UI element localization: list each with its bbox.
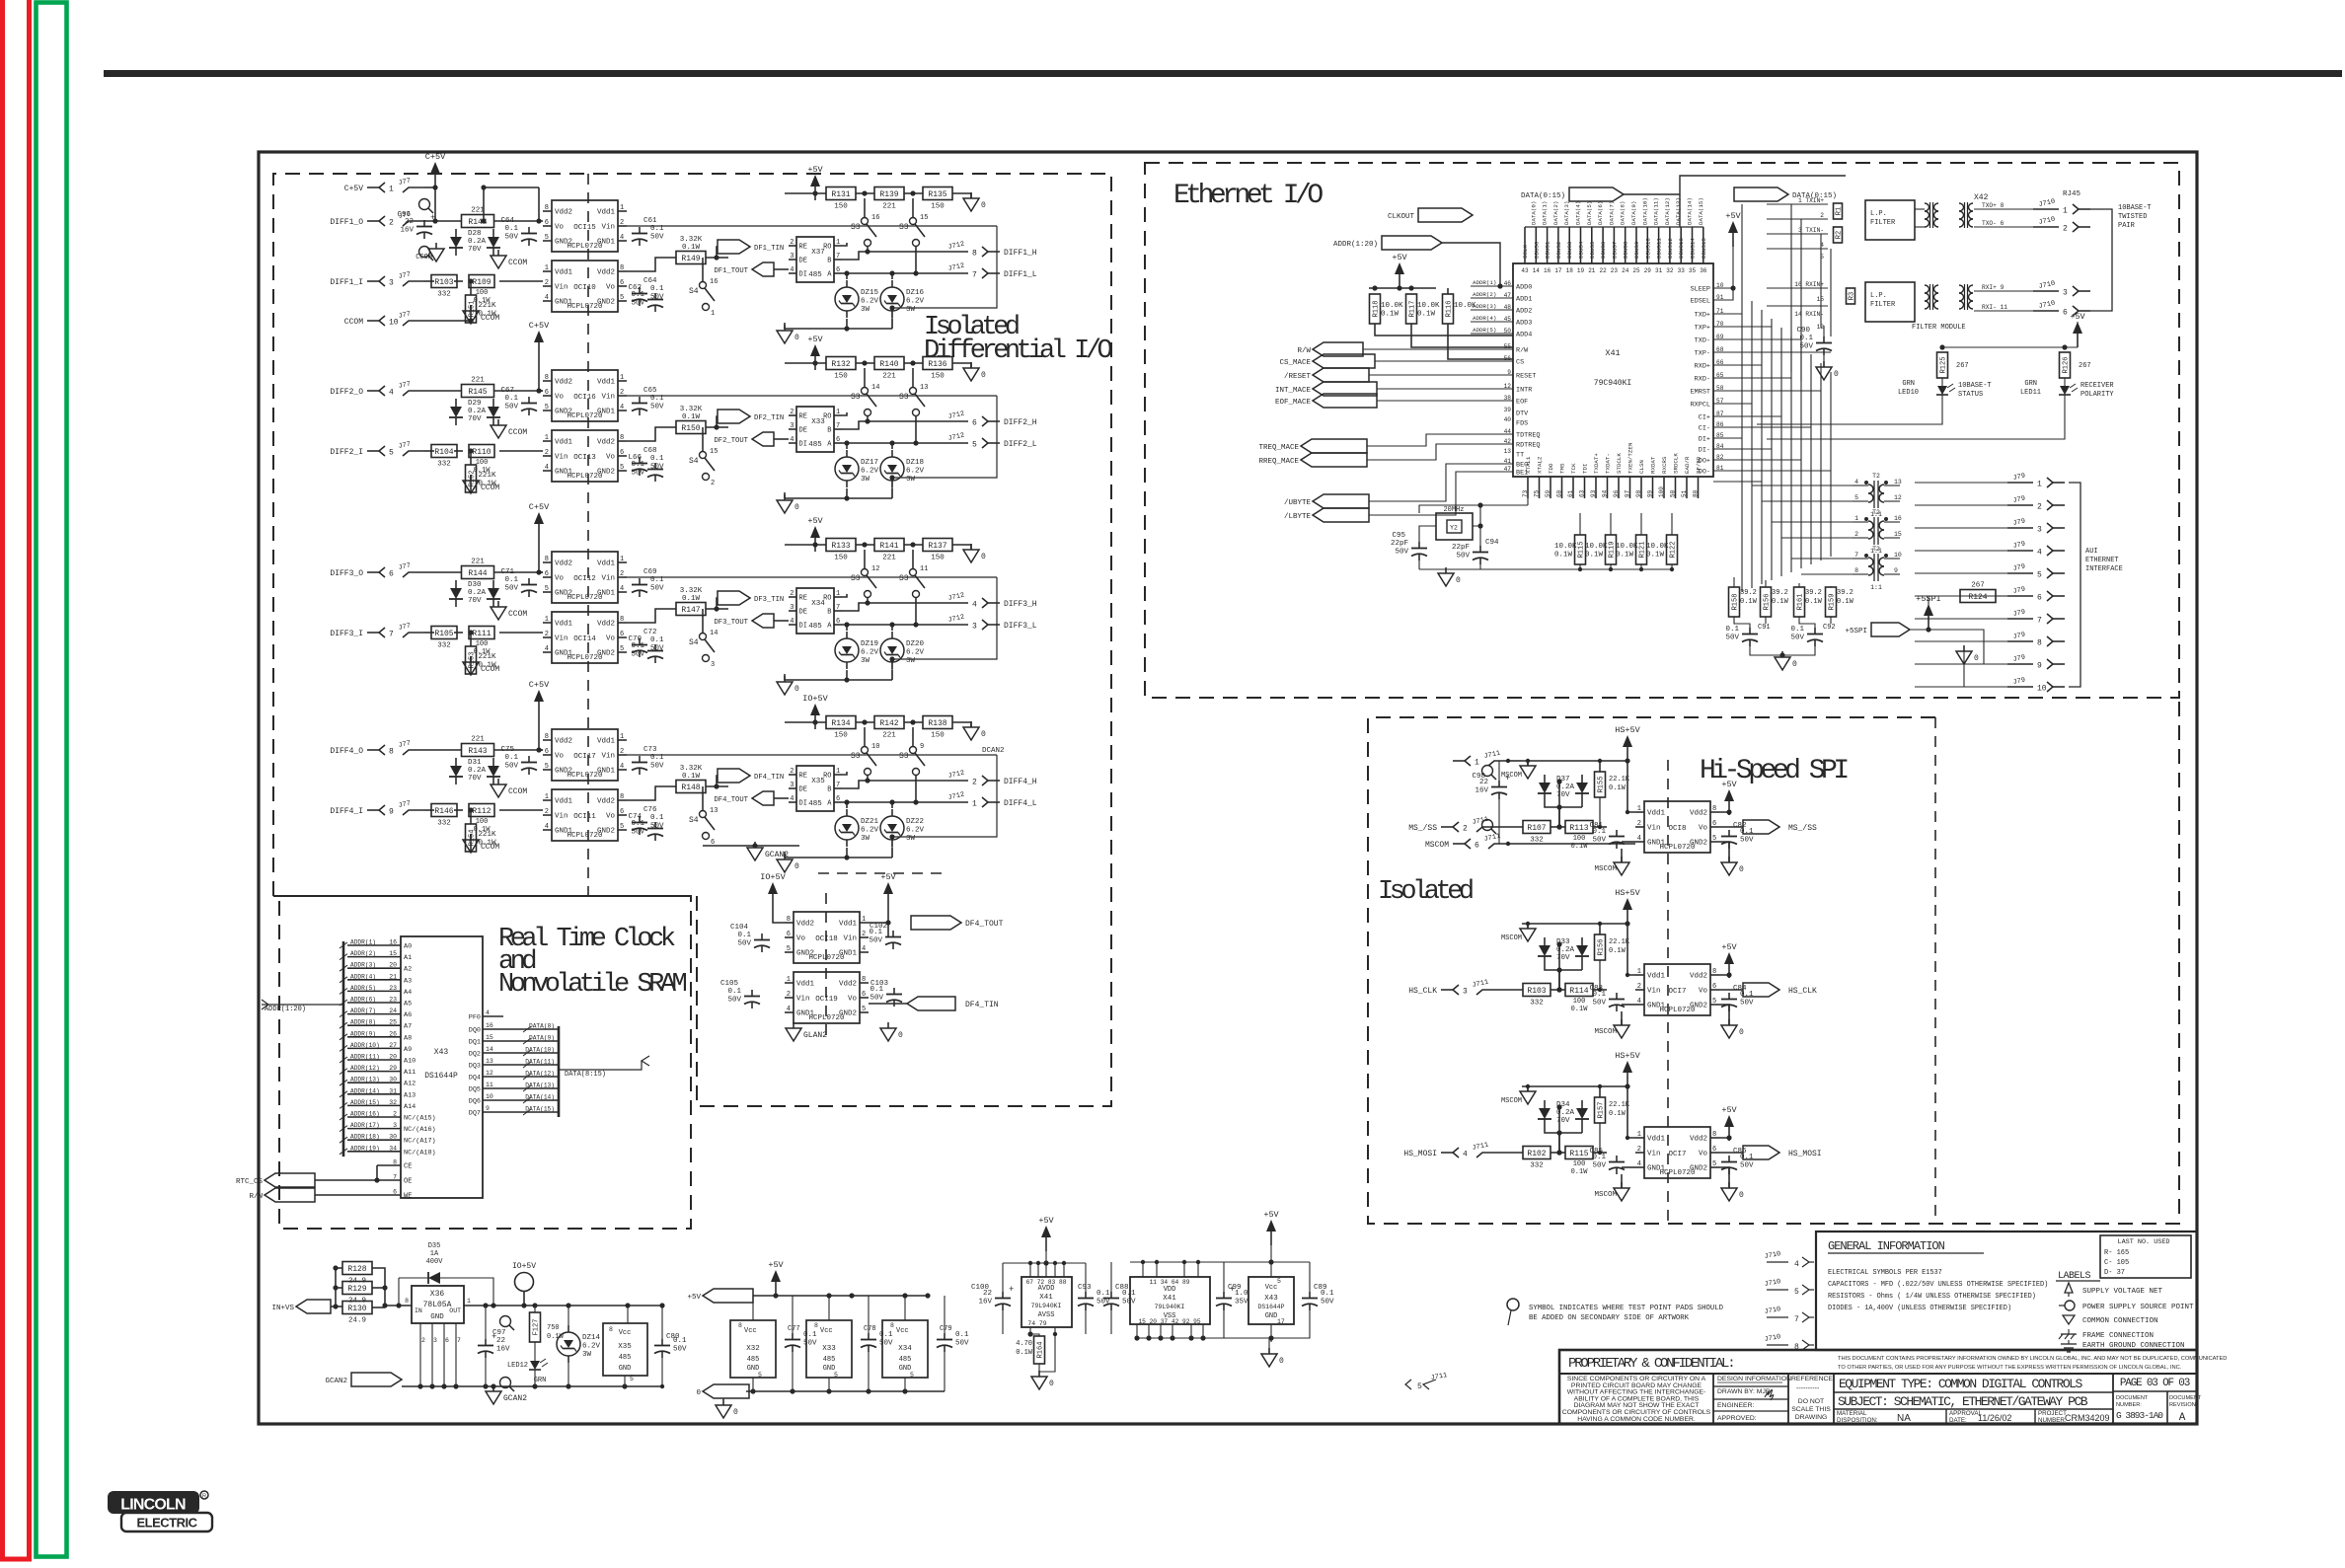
svg-text:10: 10 bbox=[486, 1093, 493, 1100]
switch S3 bbox=[851, 214, 879, 247]
svg-text:1: 1 bbox=[1637, 805, 1641, 813]
svg-text:IN: IN bbox=[415, 1307, 422, 1314]
wire bbox=[1045, 1251, 1047, 1277]
resistor R126 bbox=[2060, 352, 2071, 378]
svg-text:DI: DI bbox=[799, 800, 807, 808]
optocoupler OCI14 HCPL0720 bbox=[543, 612, 627, 663]
svg-text:X43: X43 bbox=[434, 1048, 449, 1057]
wire bbox=[661, 1306, 663, 1339]
svg-text:50V: 50V bbox=[504, 404, 518, 411]
X41 left pins bbox=[1471, 279, 1540, 478]
wire bbox=[842, 781, 943, 788]
legend: earth ground connection bbox=[2061, 1340, 2185, 1352]
SRAM power X43 bbox=[1248, 1277, 1294, 1325]
svg-text:35V: 35V bbox=[1235, 1299, 1248, 1307]
svg-text:16: 16 bbox=[1544, 267, 1551, 274]
wire bbox=[470, 810, 472, 824]
svg-text:Vdd2: Vdd2 bbox=[555, 209, 572, 217]
svg-text:2: 2 bbox=[972, 779, 977, 787]
svg-text:MS_/SS: MS_/SS bbox=[1788, 824, 1817, 833]
svg-text:13: 13 bbox=[1894, 479, 1902, 485]
svg-text:485: 485 bbox=[747, 1356, 760, 1364]
svg-text:6: 6 bbox=[1712, 820, 1716, 828]
svg-text:750: 750 bbox=[547, 1324, 560, 1332]
svg-text:C104: C104 bbox=[730, 924, 749, 932]
legend: common connection bbox=[2063, 1315, 2158, 1325]
svg-text:60: 60 bbox=[1556, 489, 1563, 497]
svg-text:C84: C84 bbox=[1733, 985, 1747, 993]
svg-text:A3: A3 bbox=[404, 977, 412, 985]
svg-text:3: 3 bbox=[393, 1122, 397, 1129]
wire crystal bbox=[1419, 505, 1528, 513]
svg-text:C93: C93 bbox=[1078, 1284, 1092, 1292]
wire bbox=[1002, 1263, 1004, 1292]
net flag bbox=[1871, 623, 1910, 636]
switch S3 bbox=[899, 565, 928, 598]
design information cell bbox=[1713, 1376, 1791, 1422]
svg-text:150: 150 bbox=[834, 373, 848, 381]
svg-text:332: 332 bbox=[437, 820, 451, 828]
wire bbox=[627, 609, 676, 623]
svg-text:R140: R140 bbox=[879, 360, 898, 369]
section box: Isolated Differential I/O bbox=[273, 174, 1111, 1106]
svg-text:5: 5 bbox=[1712, 1160, 1716, 1168]
wire bbox=[717, 247, 718, 258]
power source IO+5V bbox=[512, 1262, 536, 1306]
wire bbox=[944, 1296, 946, 1333]
switch S3 bbox=[851, 384, 879, 416]
wire bbox=[784, 852, 786, 858]
svg-text:DZ15: DZ15 bbox=[861, 289, 879, 297]
svg-text:9: 9 bbox=[486, 1105, 490, 1112]
svg-text:DIFF1_L: DIFF1_L bbox=[1004, 270, 1037, 279]
svg-text:4: 4 bbox=[620, 763, 624, 771]
svg-text:5: 5 bbox=[1712, 998, 1716, 1006]
resistor R147 bbox=[676, 603, 706, 616]
AUI bracket bbox=[2069, 483, 2080, 687]
svg-text:Vdd2: Vdd2 bbox=[1690, 810, 1707, 818]
svg-text:8: 8 bbox=[620, 434, 624, 442]
wire bbox=[785, 721, 826, 723]
svg-text:C82: C82 bbox=[1733, 822, 1747, 830]
svg-text:Vin: Vin bbox=[555, 813, 568, 821]
svg-text:NC/(A17): NC/(A17) bbox=[404, 1138, 436, 1146]
svg-text:R144: R144 bbox=[468, 569, 487, 578]
svg-text:10: 10 bbox=[2037, 685, 2047, 694]
svg-text:ADDR(4): ADDR(4) bbox=[1473, 315, 1496, 322]
svg-text:R105: R105 bbox=[434, 630, 453, 638]
svg-text:TDTREQ: TDTREQ bbox=[1516, 432, 1540, 440]
wire bbox=[1719, 975, 1729, 978]
svg-text:TMS: TMS bbox=[1559, 463, 1566, 474]
resistor R138 bbox=[923, 716, 952, 740]
svg-text:PAIR: PAIR bbox=[2118, 222, 2136, 230]
wire bbox=[1621, 1011, 1623, 1025]
wire bbox=[1527, 761, 1529, 766]
svg-text:5: 5 bbox=[545, 585, 549, 593]
power net HS+5V bbox=[1615, 725, 1640, 761]
svg-text:3: 3 bbox=[790, 422, 794, 430]
svg-text:A2: A2 bbox=[404, 966, 412, 974]
ground bbox=[491, 250, 527, 268]
wire bbox=[856, 192, 874, 194]
svg-text:DZ19: DZ19 bbox=[861, 640, 878, 648]
svg-text:C71: C71 bbox=[500, 568, 514, 576]
svg-text:C83: C83 bbox=[1589, 985, 1603, 993]
svg-text:1: 1 bbox=[836, 409, 840, 416]
svg-text:DZ22: DZ22 bbox=[906, 818, 924, 826]
wire bbox=[470, 305, 472, 323]
svg-text:0.1: 0.1 bbox=[650, 814, 664, 822]
svg-text:2: 2 bbox=[787, 991, 791, 999]
svg-text:6.2V: 6.2V bbox=[861, 298, 879, 306]
resistor R135 bbox=[923, 187, 952, 211]
connector J79 pin 3 bbox=[2007, 517, 2065, 534]
svg-text:2: 2 bbox=[545, 631, 549, 638]
svg-text:HCPL0720: HCPL0720 bbox=[1659, 1169, 1696, 1177]
Lincoln Electric logo bbox=[108, 1491, 212, 1531]
svg-text:11/26/02: 11/26/02 bbox=[1978, 1413, 2011, 1423]
wire T2 to J79 bbox=[1915, 483, 2007, 687]
capacitor bbox=[1103, 1290, 1136, 1310]
transformer (TX2) bbox=[1959, 202, 1973, 228]
svg-text:Vdd2: Vdd2 bbox=[597, 621, 615, 629]
svg-text:DATA(5): DATA(5) bbox=[1586, 201, 1593, 225]
resistor R142 bbox=[874, 716, 904, 740]
svg-text:C77: C77 bbox=[788, 1325, 800, 1333]
svg-text:13: 13 bbox=[710, 807, 718, 815]
svg-text:6: 6 bbox=[862, 991, 866, 999]
svg-text:+5V: +5V bbox=[1263, 1210, 1279, 1220]
svg-text:5: 5 bbox=[834, 1372, 838, 1379]
net flag DF4_TOUT bbox=[911, 916, 961, 930]
svg-text:C96: C96 bbox=[397, 211, 411, 219]
resistor R109 bbox=[469, 275, 494, 288]
svg-text:RE: RE bbox=[799, 595, 807, 603]
SPI isolation dashed lines bbox=[1667, 760, 1669, 1224]
svg-text:DATA(10): DATA(10) bbox=[1641, 197, 1648, 225]
capacitor C72 bbox=[632, 636, 664, 657]
svg-text:Vdd2: Vdd2 bbox=[597, 798, 615, 806]
svg-text:C75: C75 bbox=[500, 746, 514, 754]
wire bbox=[717, 598, 718, 609]
svg-text:D30: D30 bbox=[468, 581, 482, 589]
svg-text:50V: 50V bbox=[1740, 1162, 1754, 1170]
svg-text:5: 5 bbox=[620, 823, 624, 831]
svg-text:CCOM: CCOM bbox=[508, 610, 527, 619]
svg-text:DISPOSITION:: DISPOSITION: bbox=[1837, 1417, 1878, 1424]
net flag /UBYTE bbox=[1313, 494, 1369, 508]
legend: frame connection bbox=[2059, 1329, 2154, 1340]
wire bbox=[1527, 1086, 1529, 1091]
connector J77 pin 5 (DIFF2_I) bbox=[330, 440, 424, 457]
svg-text:SCLK: SCLK bbox=[1522, 245, 1529, 259]
svg-text:R1: R1 bbox=[1836, 207, 1844, 215]
svg-text:DF2_TIN: DF2_TIN bbox=[754, 414, 784, 422]
svg-text:2: 2 bbox=[1637, 983, 1641, 991]
svg-text:ADDR(9): ADDR(9) bbox=[350, 1030, 376, 1037]
svg-text:20: 20 bbox=[389, 962, 397, 969]
legend: power supply source point bbox=[2059, 1301, 2194, 1311]
svg-text:INTERFACE: INTERFACE bbox=[2085, 565, 2123, 573]
svg-text:3W: 3W bbox=[906, 306, 916, 314]
svg-text:Vin: Vin bbox=[555, 635, 568, 643]
svg-text:4: 4 bbox=[1463, 1151, 1468, 1159]
LED LED10 bbox=[1936, 378, 1955, 402]
resistor R118 bbox=[1370, 294, 1404, 324]
svg-text:DQ7: DQ7 bbox=[469, 1110, 481, 1118]
svg-text:B: B bbox=[827, 609, 831, 617]
LED LED12 bbox=[529, 1353, 548, 1377]
svg-text:150: 150 bbox=[834, 203, 848, 211]
svg-text:C86: C86 bbox=[1733, 1148, 1747, 1156]
connector J711 pin 4 (HS_MOSI) bbox=[1403, 1142, 1498, 1159]
svg-text:RE: RE bbox=[799, 413, 807, 421]
svg-text:R157: R157 bbox=[1598, 1102, 1606, 1119]
svg-text:3: 3 bbox=[790, 253, 794, 261]
svg-text:CS: CS bbox=[1516, 359, 1524, 367]
svg-text:3 TXIN-: 3 TXIN- bbox=[1798, 227, 1824, 234]
svg-text:39.2: 39.2 bbox=[1772, 589, 1788, 597]
net flag HS_MOSI bbox=[1743, 1146, 1779, 1159]
svg-text:0: 0 bbox=[981, 553, 986, 561]
resistor R136 bbox=[923, 357, 952, 381]
connector J79 pin 6 bbox=[2007, 585, 2065, 602]
connector J711 pin 5 bbox=[1405, 1372, 1448, 1391]
svg-text:221: 221 bbox=[882, 203, 896, 211]
wire supply rail bbox=[1522, 1085, 1627, 1087]
svg-text:DQ0: DQ0 bbox=[469, 1027, 481, 1035]
connector J710 pin 1 bbox=[2033, 198, 2090, 216]
svg-text:50V: 50V bbox=[650, 585, 664, 593]
resistor R144 bbox=[462, 207, 494, 228]
ground bbox=[463, 475, 499, 493]
svg-text:Vdd1: Vdd1 bbox=[555, 621, 573, 629]
svg-text:Vdd1: Vdd1 bbox=[597, 379, 616, 387]
svg-text:98: 98 bbox=[1635, 489, 1642, 497]
capacitor C102 bbox=[869, 929, 901, 949]
svg-text:R107: R107 bbox=[1527, 824, 1546, 833]
svg-text:C+5V: C+5V bbox=[529, 680, 550, 690]
svg-text:Vdd2: Vdd2 bbox=[1690, 973, 1707, 981]
svg-text:R122: R122 bbox=[1670, 542, 1678, 559]
wire bbox=[1419, 568, 1672, 570]
svg-text:0: 0 bbox=[794, 685, 799, 694]
svg-text:ADDR(8): ADDR(8) bbox=[350, 1019, 376, 1026]
svg-text:50V: 50V bbox=[1395, 549, 1408, 557]
switch S4 bbox=[689, 278, 718, 318]
svg-text:Vin: Vin bbox=[1647, 1151, 1661, 1158]
svg-text:4: 4 bbox=[620, 585, 624, 593]
optocoupler OCI7 HCPL0720 bbox=[1635, 1127, 1719, 1178]
svg-text:Vdd1: Vdd1 bbox=[555, 269, 573, 277]
svg-text:DBUS6: DBUS6 bbox=[1600, 241, 1607, 259]
svg-text:S3: S3 bbox=[899, 223, 909, 232]
svg-text:CCOM: CCOM bbox=[344, 318, 363, 327]
svg-text:6.2V: 6.2V bbox=[861, 649, 879, 657]
svg-text:OCI10: OCI10 bbox=[573, 284, 596, 292]
svg-text:C99: C99 bbox=[1228, 1284, 1242, 1292]
svg-text:8: 8 bbox=[545, 374, 549, 382]
capacitor C69 bbox=[632, 576, 664, 597]
svg-text:150: 150 bbox=[931, 373, 945, 381]
svg-text:0.1: 0.1 bbox=[727, 988, 741, 996]
capacitor C70 bbox=[631, 642, 663, 663]
crystal Y2 20MHz bbox=[1436, 506, 1473, 540]
svg-text:22.1K: 22.1K bbox=[1609, 938, 1630, 946]
svg-text:C102: C102 bbox=[870, 923, 887, 931]
svg-text:0: 0 bbox=[1739, 1028, 1744, 1037]
svg-text:0: 0 bbox=[1739, 865, 1744, 874]
svg-text:A9: A9 bbox=[404, 1046, 412, 1054]
svg-text:1: 1 bbox=[711, 310, 715, 318]
svg-text:A12: A12 bbox=[404, 1081, 416, 1088]
svg-text:39.2: 39.2 bbox=[1805, 589, 1822, 597]
wire bbox=[1377, 388, 1513, 390]
svg-text:63: 63 bbox=[1579, 489, 1586, 497]
test point bbox=[500, 1378, 515, 1392]
svg-text:DBUS4: DBUS4 bbox=[1578, 241, 1585, 259]
svg-text:1: 1 bbox=[787, 976, 791, 984]
wire bbox=[785, 679, 892, 681]
switch S3 bbox=[899, 384, 928, 416]
svg-text:A8: A8 bbox=[404, 1034, 412, 1042]
svg-text:22pF: 22pF bbox=[1391, 540, 1408, 548]
optocoupler OCI17 HCPL0720 bbox=[543, 729, 627, 781]
svg-text:DATE:: DATE: bbox=[1949, 1417, 1967, 1424]
ground bbox=[463, 305, 499, 324]
svg-text:R125: R125 bbox=[1940, 357, 1948, 374]
svg-text:3: 3 bbox=[2063, 289, 2068, 298]
svg-text:C85: C85 bbox=[1589, 1148, 1603, 1156]
disclaimer cell bbox=[1562, 1376, 1711, 1423]
reference cell bbox=[1791, 1376, 1835, 1421]
svg-text:DATA(9): DATA(9) bbox=[529, 1035, 555, 1042]
connector J77 pin 8 (DIFF4_O) bbox=[330, 739, 424, 756]
svg-text:3W: 3W bbox=[861, 835, 870, 843]
svg-text:TXDAT+: TXDAT+ bbox=[1593, 453, 1600, 474]
svg-text:8: 8 bbox=[890, 1322, 894, 1329]
svg-text:C76: C76 bbox=[643, 806, 657, 814]
svg-text:R115: R115 bbox=[1569, 1150, 1588, 1158]
green registration bar bbox=[37, 3, 67, 1557]
svg-text:EQUIPMENT TYPE: COMMON DIGITAL: EQUIPMENT TYPE: COMMON DIGITAL CONTROLS bbox=[1839, 1377, 2082, 1391]
svg-text:15 20 37 42 92 95: 15 20 37 42 92 95 bbox=[1138, 1318, 1200, 1325]
svg-text:0: 0 bbox=[1974, 654, 1979, 663]
connector J77 pin 10 (CCOM) bbox=[344, 310, 424, 327]
svg-text:ADDR(14): ADDR(14) bbox=[350, 1087, 380, 1094]
switch S4 bbox=[689, 630, 718, 669]
ground bbox=[777, 854, 799, 872]
wire bbox=[842, 603, 943, 611]
resistor R150 bbox=[676, 421, 706, 434]
svg-text:+5V: +5V bbox=[1038, 1216, 1054, 1226]
svg-text:7: 7 bbox=[1854, 552, 1858, 559]
svg-text:0.1W: 0.1W bbox=[1585, 552, 1604, 560]
svg-text:TXO+ 8: TXO+ 8 bbox=[1982, 202, 2005, 209]
svg-text:A13: A13 bbox=[404, 1091, 416, 1099]
ground bbox=[1614, 1019, 1629, 1038]
svg-text:HCPL0720: HCPL0720 bbox=[1659, 1007, 1696, 1014]
diode D29 bbox=[449, 399, 500, 425]
svg-text:3W: 3W bbox=[861, 306, 870, 314]
svg-text:L66: L66 bbox=[628, 454, 642, 462]
wire gnd rail bbox=[746, 1390, 945, 1392]
svg-text:DATA(7): DATA(7) bbox=[1608, 201, 1615, 225]
svg-text:Vdd2: Vdd2 bbox=[555, 738, 572, 746]
ground bbox=[1520, 760, 1536, 779]
svg-text:DZ17: DZ17 bbox=[861, 459, 878, 467]
svg-text:R109: R109 bbox=[472, 278, 491, 287]
svg-text:16: 16 bbox=[389, 939, 397, 946]
wire bbox=[627, 786, 676, 800]
svg-text:Vo: Vo bbox=[606, 454, 616, 462]
svg-text:8: 8 bbox=[2037, 639, 2042, 648]
svg-text:DOCUMENT: DOCUMENT bbox=[2116, 1395, 2149, 1401]
net flag bbox=[296, 1300, 331, 1313]
svg-text:150: 150 bbox=[931, 203, 945, 211]
connector J710 pin 5 bbox=[1764, 1278, 1814, 1297]
svg-text:6.2V: 6.2V bbox=[906, 827, 925, 835]
svg-text:0.1: 0.1 bbox=[803, 1331, 817, 1339]
wire bbox=[1510, 843, 1635, 845]
svg-text:16V: 16V bbox=[400, 227, 414, 235]
svg-text:OCI15: OCI15 bbox=[573, 224, 596, 232]
svg-text:0.1W: 0.1W bbox=[1381, 311, 1399, 319]
svg-text:C90: C90 bbox=[1796, 327, 1810, 335]
svg-text:LINCOLN: LINCOLN bbox=[120, 1497, 186, 1514]
legend: supply voltage net bbox=[2065, 1283, 2163, 1297]
svg-text:97: 97 bbox=[1625, 489, 1631, 497]
net flag /LBYTE bbox=[1313, 508, 1369, 522]
svg-text:R130: R130 bbox=[347, 1305, 366, 1313]
svg-text:X36: X36 bbox=[430, 1290, 445, 1299]
ground bbox=[463, 834, 499, 853]
wire supply rail bbox=[1522, 760, 1627, 762]
net flag bbox=[703, 1384, 749, 1398]
connector J79 pin 4 bbox=[2007, 540, 2065, 557]
svg-text:X41: X41 bbox=[1039, 1294, 1053, 1302]
svg-text:COMMON CONNECTION: COMMON CONNECTION bbox=[2082, 1317, 2158, 1325]
svg-text:50V: 50V bbox=[631, 300, 644, 308]
svg-text:Vcc: Vcc bbox=[820, 1327, 833, 1335]
svg-text:DATA(15): DATA(15) bbox=[1698, 197, 1704, 225]
svg-text:C73: C73 bbox=[643, 746, 657, 754]
svg-text:C+5V: C+5V bbox=[529, 502, 550, 512]
svg-text:R134: R134 bbox=[831, 719, 850, 728]
switch S4 bbox=[689, 807, 718, 847]
svg-text:X34: X34 bbox=[811, 600, 825, 608]
svg-text:SF/BD: SF/BD bbox=[1696, 456, 1702, 474]
svg-text:X33: X33 bbox=[822, 1345, 836, 1353]
svg-text:ADDR(11): ADDR(11) bbox=[350, 1054, 380, 1061]
svg-text:19: 19 bbox=[1577, 267, 1585, 274]
svg-text:RE: RE bbox=[799, 773, 807, 781]
wire bbox=[869, 1003, 907, 1005]
ground bbox=[963, 362, 986, 381]
svg-text:CLSN: CLSN bbox=[1638, 460, 1645, 474]
resistor R153 bbox=[466, 646, 497, 674]
resistor R121 bbox=[1616, 535, 1647, 564]
svg-text:DIFF2_H: DIFF2_H bbox=[1004, 418, 1037, 427]
svg-text:100: 100 bbox=[476, 459, 489, 467]
svg-text:RREQ_MACE: RREQ_MACE bbox=[1258, 458, 1299, 466]
wire bbox=[539, 538, 543, 572]
svg-text:Vdd1: Vdd1 bbox=[1647, 810, 1666, 818]
svg-text:X41: X41 bbox=[1605, 348, 1620, 358]
svg-text:0.1: 0.1 bbox=[650, 285, 664, 293]
svg-text:8: 8 bbox=[609, 1326, 613, 1333]
